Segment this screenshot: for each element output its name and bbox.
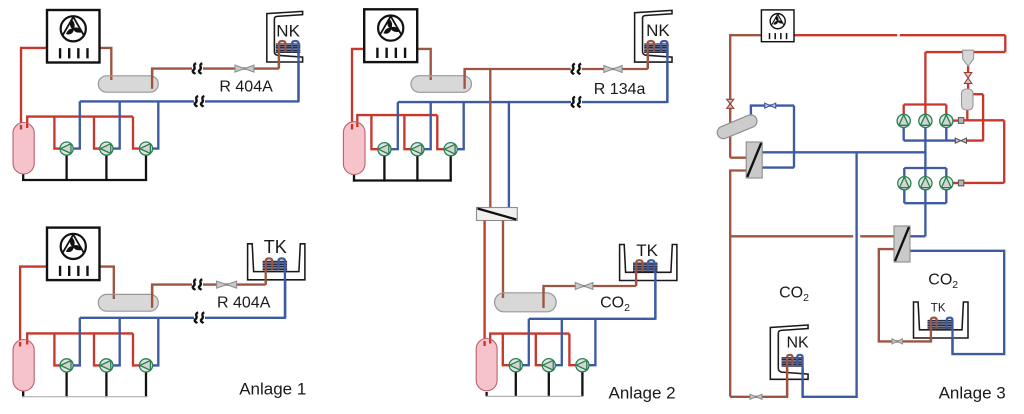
svg-text:NK: NK (646, 21, 670, 40)
svg-text:Anlage 2: Anlage 2 (609, 384, 676, 403)
svg-text:R 404A: R 404A (219, 79, 273, 96)
svg-text:TK: TK (264, 237, 287, 257)
svg-text:NK: NK (787, 335, 810, 352)
svg-text:R 404A: R 404A (217, 294, 271, 311)
svg-text:TK: TK (931, 303, 946, 315)
svg-text:TK: TK (636, 241, 658, 260)
svg-text:R 134a: R 134a (594, 81, 646, 98)
svg-text:NK: NK (276, 22, 300, 41)
svg-text:Anlage 3: Anlage 3 (939, 384, 1006, 403)
svg-text:Anlage 1: Anlage 1 (239, 379, 306, 398)
